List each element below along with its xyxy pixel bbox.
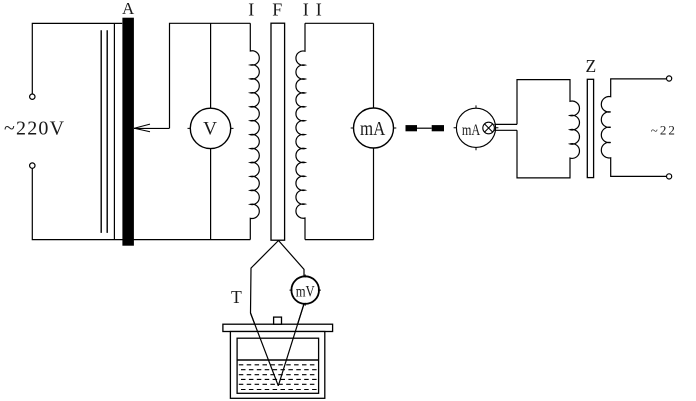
- svg-text:~220V: ~220V: [4, 118, 65, 140]
- wire II bottom: [305, 239, 374, 241]
- svg-text:mA: mA: [462, 122, 481, 139]
- beaker outer wall: [230, 332, 324, 399]
- svg-text:V: V: [203, 118, 217, 139]
- meter ticks mA1: [351, 105, 397, 151]
- wire mA top lead: [373, 23, 375, 108]
- svg-text:F: F: [272, 0, 282, 20]
- dashed link thin line: [417, 127, 432, 129]
- terminal bottom-right: [667, 174, 672, 179]
- liquid hatching: [239, 365, 317, 390]
- core Z: [587, 79, 593, 177]
- coil I (primary winding): [250, 23, 259, 239]
- wire top-left horizontal: [32, 23, 122, 94]
- thermocouple left wire: [251, 241, 279, 386]
- wire bottom-left: [32, 168, 250, 239]
- thermocouple wires over lid (redraw): [251, 304, 305, 386]
- meter ticks V: [188, 105, 499, 306]
- terminal top-right: [667, 76, 672, 81]
- wire V-meter bottom lead: [210, 149, 212, 240]
- svg-text:~22: ~22: [651, 123, 677, 138]
- coil II (secondary winding): [296, 23, 305, 239]
- dashed link dash 1: [406, 125, 418, 131]
- meter ticks mV: [290, 275, 321, 306]
- svg-text:I: I: [248, 0, 254, 20]
- wire pair lower: [494, 129, 517, 131]
- milliammeter mA1: [354, 108, 394, 148]
- wire V-meter top lead: [210, 23, 212, 108]
- wiper arrow: [134, 127, 170, 129]
- autotransformer bar A: [122, 18, 133, 246]
- svg-text:A: A: [122, 0, 135, 18]
- voltmeter V: [190, 108, 230, 148]
- beaker lid plate: [223, 324, 333, 331]
- transformer Z primary box: [517, 80, 579, 178]
- svg-text:Z: Z: [586, 56, 597, 76]
- wire II top: [305, 22, 374, 24]
- svg-text:mA: mA: [360, 118, 386, 140]
- wire pair upper: [494, 123, 517, 125]
- terminal bottom-left: [30, 163, 35, 168]
- variac winding line 2: [106, 30, 108, 233]
- wire mA bottom lead: [373, 148, 375, 240]
- svg-text:T: T: [231, 287, 242, 307]
- svg-text:II: II: [303, 0, 329, 20]
- variac winding line 3: [113, 23, 115, 239]
- terminal top-left: [30, 94, 35, 99]
- thermocouple right wire lower: [278, 304, 304, 386]
- dashed link dash 2: [432, 125, 444, 131]
- wire wiper riser: [170, 23, 251, 128]
- variac winding line 1: [100, 30, 102, 233]
- thermocouple right wire upper: [279, 241, 305, 277]
- milliammeter mA2: [456, 108, 495, 147]
- lamp symbol (crossed circle): [483, 122, 495, 134]
- meter ticks mA2: [454, 105, 499, 150]
- liquid surface: [237, 359, 319, 361]
- transformer Z secondary coil: [601, 79, 666, 176]
- millivoltmeter mV: [291, 276, 319, 304]
- beaker lid knob: [274, 317, 282, 324]
- beaker inner vessel: [237, 338, 319, 393]
- core F: [271, 23, 285, 240]
- svg-text:mV: mV: [296, 284, 315, 301]
